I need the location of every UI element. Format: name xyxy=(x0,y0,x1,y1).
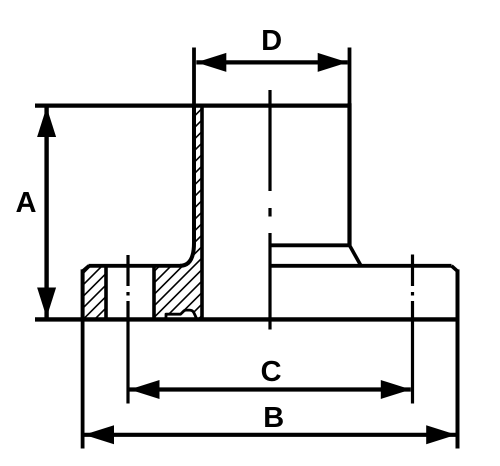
dimension B line xyxy=(84,433,456,437)
left bolt centerline with C extension xyxy=(126,255,129,404)
label D xyxy=(263,30,281,50)
neck left outer wall with fillet xyxy=(180,104,194,266)
label A xyxy=(16,192,35,212)
B right arrowhead xyxy=(426,425,456,444)
flange top left xyxy=(89,264,181,268)
neck top line with A top extension xyxy=(35,103,350,107)
A top arrowhead xyxy=(37,107,56,137)
label C xyxy=(262,361,281,382)
neck right outer wall xyxy=(347,103,351,245)
bolt hole right wall xyxy=(152,266,156,320)
B left arrowhead xyxy=(84,425,114,444)
C left arrowhead xyxy=(130,380,160,399)
hatch left rim of flange section xyxy=(83,266,106,320)
bore inner wall line xyxy=(200,105,204,319)
flange top right xyxy=(270,264,452,268)
flange left chamfer xyxy=(83,266,89,271)
dimension C line xyxy=(130,387,411,391)
D right extension line xyxy=(348,48,352,111)
flange right chamfer xyxy=(452,266,458,271)
flange left edge xyxy=(81,269,85,319)
main centerline xyxy=(268,90,271,330)
D left extension line xyxy=(192,48,196,111)
flange bottom line with A extension xyxy=(35,317,458,321)
weld lip bump at bore bottom xyxy=(166,310,197,319)
label B xyxy=(265,407,283,427)
right bolt centerline with C extension xyxy=(411,255,414,404)
A bottom arrowhead xyxy=(37,288,56,318)
hub chamfer diagonal xyxy=(350,245,362,265)
bolt hole left wall xyxy=(104,266,108,320)
flange right edge with B extension xyxy=(456,269,460,448)
D left arrowhead xyxy=(196,53,226,72)
dimension D line xyxy=(196,60,347,64)
hatch main flange/neck wall section xyxy=(154,105,202,319)
B left extension line xyxy=(81,319,85,448)
C right arrowhead xyxy=(381,380,411,399)
dimension A line xyxy=(44,107,48,318)
D right arrowhead xyxy=(318,53,348,72)
hub step line right xyxy=(270,243,350,247)
